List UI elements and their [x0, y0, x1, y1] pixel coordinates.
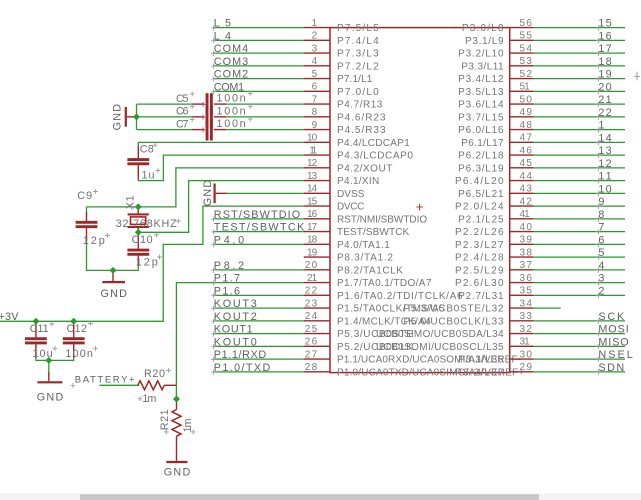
ground GND below R21 — [164, 462, 191, 479]
wire net KOUT1 — [213, 333, 304, 335]
svg-text:12: 12 — [307, 158, 318, 169]
svg-text:41: 41 — [520, 209, 531, 220]
svg-text:18: 18 — [598, 56, 611, 68]
capacitor C8 1u — [127, 143, 160, 182]
pin 17 TEST/SBWTCK — [304, 222, 410, 238]
svg-text:11: 11 — [598, 171, 611, 183]
wire net 11 — [534, 180, 625, 182]
wire net RST/SBWTDIO — [213, 218, 304, 220]
wire net KOUT3 — [213, 307, 304, 309]
pin 26 P5.2/UCB0CLK — [304, 337, 414, 353]
wire net 9 — [534, 205, 625, 207]
wire net 1 — [534, 129, 625, 131]
svg-text:P1.7/TA0.1/TDO/A7: P1.7/TA0.1/TDO/A7 — [337, 278, 432, 289]
svg-text:UCB0SIMO/UCB0SDA/L34: UCB0SIMO/UCB0SDA/L34 — [376, 329, 504, 340]
pin 31 UCB0SOMI/UCB0SCL/L35 — [376, 337, 534, 353]
svg-text:R21: R21 — [159, 409, 171, 430]
wire C10 bottom to GND node — [113, 264, 138, 271]
svg-text:C11: C11 — [30, 323, 49, 335]
svg-text:P3.2/L10: P3.2/L10 — [458, 49, 504, 60]
svg-text:55: 55 — [520, 31, 533, 42]
wire C11 C12 to GND node — [36, 356, 74, 360]
svg-text:25: 25 — [305, 324, 318, 335]
svg-text:P7.2/L2: P7.2/L2 — [337, 61, 379, 72]
capacitor C10 12p — [127, 232, 161, 268]
pin 56 P3.0/L8 — [462, 18, 534, 34]
wire net SCK — [534, 320, 625, 322]
svg-text:15: 15 — [307, 196, 318, 207]
wire pin8 to C6 — [226, 116, 303, 118]
svg-text:P4.6/R23: P4.6/R23 — [337, 112, 386, 123]
wire net 7 — [534, 231, 625, 233]
pin 36 P2.6/L30 — [455, 273, 534, 289]
crystal X1 32.768KHZ — [116, 195, 181, 232]
svg-text:UCB0SOMI/UCB0SCL/L35: UCB0SOMI/UCB0SCL/L35 — [376, 342, 504, 353]
svg-text:19: 19 — [598, 69, 611, 81]
svg-text:P2.7/L31: P2.7/L31 — [458, 291, 504, 302]
svg-text:1u: 1u — [142, 170, 155, 182]
ground GND below C9 C10 — [100, 270, 127, 300]
svg-text:100n: 100n — [217, 93, 246, 105]
svg-text:BATTERY+: BATTERY+ — [75, 375, 135, 386]
svg-text:12p: 12p — [136, 256, 158, 268]
svg-text:P4.5/R33: P4.5/R33 — [337, 125, 386, 136]
wire net 20 — [534, 90, 625, 92]
wire net KOUT2 — [213, 320, 304, 322]
svg-text:7: 7 — [312, 94, 318, 105]
svg-text:DVSS: DVSS — [337, 189, 365, 200]
svg-text:P1.7: P1.7 — [214, 273, 240, 285]
junction — [173, 396, 180, 403]
pin 13 P4.1/XIN — [304, 171, 380, 187]
svg-text:5: 5 — [598, 247, 604, 259]
svg-text:P1.6/TA0.2/TDI/TCLK/A6: P1.6/TA0.2/TDI/TCLK/A6 — [337, 291, 463, 302]
wire +3V to C11 — [35, 321, 37, 326]
wire net 2 — [534, 294, 625, 296]
svg-text:SCK: SCK — [598, 311, 625, 323]
scrollbar thumb — [80, 494, 539, 500]
svg-text:TEST/SBWTCK: TEST/SBWTCK — [214, 222, 305, 234]
svg-text:13: 13 — [307, 171, 318, 182]
svg-text:P7.3/L3: P7.3/L3 — [337, 49, 379, 60]
svg-text:51: 51 — [520, 82, 531, 93]
svg-text:33: 33 — [520, 311, 533, 322]
svg-text:P3.6/L14: P3.6/L14 — [458, 100, 504, 111]
wire +3V to C12 — [73, 321, 75, 326]
wire net COM2 — [213, 78, 304, 80]
svg-text:39: 39 — [520, 235, 533, 246]
svg-text:P3.3/L11: P3.3/L11 — [461, 61, 504, 72]
svg-text:P6.4/L20: P6.4/L20 — [455, 176, 504, 187]
svg-text:49: 49 — [520, 107, 533, 118]
svg-text:14: 14 — [307, 184, 318, 195]
svg-text:37: 37 — [520, 260, 533, 271]
svg-text:47: 47 — [520, 133, 533, 144]
capacitor C6 100n — [176, 104, 253, 128]
pin 16 RST/NMI/SBWTDIO — [304, 209, 428, 225]
svg-text:COM3: COM3 — [214, 56, 248, 68]
wire P1.7 to divider — [176, 283, 303, 399]
svg-text:19: 19 — [307, 247, 318, 258]
capacitor C7 100n — [176, 117, 253, 141]
wire net 14 — [534, 141, 625, 143]
svg-text:13: 13 — [598, 145, 611, 157]
pin 28 P1.0/UCA0TXD/UCA0SIMO/A4/VEREF+ — [304, 362, 525, 378]
svg-text:10: 10 — [307, 133, 318, 144]
svg-text:3: 3 — [312, 43, 318, 54]
svg-text:P3.5/L13: P3.5/L13 — [458, 87, 504, 98]
junction — [70, 318, 77, 325]
ground GND below C11 C12 — [37, 371, 64, 403]
svg-text:C6: C6 — [176, 106, 189, 118]
svg-text:P1.1/RXD: P1.1/RXD — [214, 349, 267, 361]
pin 21 P1.7/TA0.1/TDO/A7 — [304, 273, 432, 289]
svg-text:GND: GND — [112, 104, 124, 131]
svg-text:KOUT1: KOUT1 — [214, 324, 253, 336]
svg-text:43: 43 — [520, 184, 533, 195]
svg-text:C12: C12 — [67, 323, 88, 335]
svg-text:44: 44 — [520, 171, 533, 182]
pin 52 P3.4/L12 — [458, 69, 534, 85]
svg-text:35: 35 — [520, 286, 533, 297]
svg-text:100n: 100n — [65, 348, 93, 360]
wire net 17 — [534, 52, 625, 54]
pin 19 P8.3/TA1.2 — [304, 247, 394, 263]
wire C8 bottom to pin11 — [138, 155, 303, 181]
svg-text:9: 9 — [312, 120, 318, 131]
svg-text:P3.0/L8: P3.0/L8 — [462, 23, 504, 34]
svg-text:C7: C7 — [176, 118, 189, 130]
junction — [45, 357, 52, 364]
svg-text:17: 17 — [598, 43, 611, 55]
svg-text:P5.3/UCB0STE/L32: P5.3/UCB0STE/L32 — [403, 304, 504, 315]
svg-text:28: 28 — [305, 362, 318, 373]
svg-text:RST/SBWTDIO: RST/SBWTDIO — [214, 209, 300, 221]
svg-text:P7.1/L1: P7.1/L1 — [337, 74, 373, 85]
svg-text:P8.2/TA1CLK: P8.2/TA1CLK — [337, 265, 403, 276]
pin 12 P4.2/XOUT — [304, 158, 393, 174]
svg-text:48: 48 — [520, 120, 533, 131]
svg-text:P7.4/L4: P7.4/L4 — [337, 36, 379, 47]
svg-text:4: 4 — [598, 260, 604, 272]
svg-text:22: 22 — [305, 286, 318, 297]
svg-text:14: 14 — [598, 132, 611, 144]
pin 5 P7.1/L1 — [304, 69, 373, 85]
wire net 21 — [534, 103, 625, 105]
svg-text:45: 45 — [520, 158, 533, 169]
svg-text:GND: GND — [100, 288, 127, 300]
svg-text:20: 20 — [598, 81, 611, 93]
capacitor C11 10u — [25, 322, 57, 360]
svg-text:P4.2/XOUT: P4.2/XOUT — [337, 163, 392, 174]
pin 43 P6.5/L21 — [458, 184, 534, 200]
capacitor C12 100n — [63, 321, 98, 360]
svg-text:P4.0: P4.0 — [214, 234, 244, 246]
svg-text:12: 12 — [598, 158, 611, 170]
pin 23 P1.5/TA0CLK/TMS/A5 — [304, 298, 445, 314]
svg-text:MISO: MISO — [598, 336, 628, 348]
svg-text:COM2: COM2 — [214, 69, 248, 81]
pin 15 DVCC — [304, 196, 365, 212]
pin 18 P4.0/TA1.1 — [304, 235, 390, 251]
svg-text:11: 11 — [309, 145, 317, 156]
svg-text:1: 1 — [312, 18, 318, 29]
wire net 10 — [534, 192, 625, 194]
svg-text:34: 34 — [520, 298, 533, 309]
wire net P4.0 — [213, 243, 304, 245]
svg-text:P2.6/L30: P2.6/L30 — [455, 278, 504, 289]
svg-text:15: 15 — [598, 18, 611, 30]
svg-text:3: 3 — [598, 273, 604, 285]
junction — [110, 267, 117, 274]
svg-text:46: 46 — [520, 145, 533, 156]
pin 33 P5.0/UCB0CLK/L33 — [403, 311, 533, 327]
svg-text:10: 10 — [598, 183, 611, 195]
pin 39 P2.3/L27 — [455, 235, 534, 251]
svg-text:P1.0/TXD: P1.0/TXD — [214, 362, 271, 374]
wire net NSEL — [534, 358, 625, 360]
svg-text:1m: 1m — [142, 393, 156, 405]
svg-text:RST/NMI/SBWTDIO: RST/NMI/SBWTDIO — [337, 214, 427, 225]
wire net P1.1/RXD — [213, 358, 304, 360]
wire net 3 — [534, 282, 625, 284]
svg-text:31: 31 — [520, 337, 531, 348]
svg-text:38: 38 — [520, 247, 533, 258]
svg-text:20: 20 — [305, 260, 318, 271]
svg-text:GND: GND — [164, 467, 191, 479]
junction — [135, 229, 142, 236]
svg-text:100n: 100n — [217, 105, 246, 117]
svg-text:P3.7/L15: P3.7/L15 — [458, 112, 504, 123]
resistor R21 1m — [159, 399, 196, 461]
svg-text:26: 26 — [305, 337, 318, 348]
svg-text:P8.2: P8.2 — [214, 260, 244, 272]
pin 20 P8.2/TA1CLK — [304, 260, 404, 276]
wire net 16 — [534, 39, 625, 41]
svg-text:P1.6: P1.6 — [214, 285, 240, 297]
pin 1 P7.5/L5 — [304, 18, 379, 34]
svg-text:16: 16 — [598, 30, 611, 42]
pin 11 P4.3/LCDCAP0 — [304, 145, 414, 161]
svg-text:9: 9 — [598, 196, 604, 208]
wire net 8 — [534, 218, 625, 220]
IC U1 MSP430 — [330, 28, 510, 373]
pin 47 P6.1/L17 — [461, 133, 533, 149]
svg-text:GND: GND — [202, 180, 214, 207]
svg-text:17: 17 — [307, 222, 318, 233]
wire net MOSI — [534, 333, 625, 335]
svg-text:18: 18 — [307, 235, 318, 246]
svg-text:30: 30 — [520, 349, 533, 360]
wire net MISO — [534, 345, 625, 347]
wire net L5 — [213, 27, 304, 29]
wire net P1.0/TXD — [213, 371, 304, 373]
wire pin9 to C7 — [226, 129, 303, 131]
svg-text:6: 6 — [598, 234, 604, 246]
pin 10 P4.4/LCDCAP1 — [304, 133, 410, 149]
wire net 22 — [534, 116, 625, 118]
svg-text:8: 8 — [312, 107, 318, 118]
svg-text:12p: 12p — [83, 235, 105, 247]
origin cross U1 — [416, 204, 422, 210]
edge mark right — [634, 72, 640, 80]
svg-text:1: 1 — [598, 120, 604, 132]
svg-text:P7.5/L5: P7.5/L5 — [337, 23, 379, 34]
junction — [32, 318, 39, 325]
pin 7 P4.7/R13 — [304, 94, 383, 110]
svg-text:32.768KHZ: 32.768KHZ — [116, 218, 177, 230]
svg-text:SDN: SDN — [598, 362, 624, 374]
svg-text:P2.2/L26: P2.2/L26 — [455, 227, 504, 238]
svg-text:P5.0/UCB0CLK/L33: P5.0/UCB0CLK/L33 — [403, 316, 504, 327]
svg-text:32: 32 — [520, 324, 533, 335]
svg-text:22: 22 — [598, 107, 611, 119]
svg-text:P7.0/L0: P7.0/L0 — [337, 87, 379, 98]
pin 42 P2.0/L24 — [455, 196, 534, 212]
pin 51 P3.5/L13 — [458, 82, 534, 98]
svg-text:P3.1/L36: P3.1/L36 — [458, 355, 504, 366]
wire net 12 — [534, 167, 625, 169]
pin 54 P3.2/L10 — [458, 43, 534, 59]
svg-text:P4.4/LCDCAP1: P4.4/LCDCAP1 — [337, 138, 410, 149]
wire net 6 — [534, 243, 625, 245]
svg-text:C5: C5 — [176, 93, 189, 105]
pin 49 P3.7/L15 — [458, 107, 534, 123]
svg-text:MOSI: MOSI — [598, 324, 628, 336]
pin 37 P2.5/L29 — [455, 260, 534, 276]
pin 55 P3.1/L9 — [465, 31, 534, 47]
svg-text:P6.0/L16: P6.0/L16 — [458, 125, 504, 136]
svg-text:42: 42 — [520, 196, 533, 207]
pin 50 P3.6/L14 — [458, 94, 534, 110]
svg-text:GND: GND — [37, 392, 64, 404]
svg-text:54: 54 — [520, 43, 533, 54]
svg-text:+3V: +3V — [0, 311, 19, 323]
svg-text:P3.1/L9: P3.1/L9 — [465, 36, 504, 47]
svg-text:C9: C9 — [77, 190, 92, 202]
scrollbar track — [0, 494, 641, 500]
pin 3 P7.3/L3 — [304, 43, 379, 59]
wire DVSS to GND — [227, 192, 304, 194]
pin 46 P6.2/L18 — [458, 145, 534, 161]
svg-text:8: 8 — [598, 209, 604, 221]
svg-text:P6.2/L18: P6.2/L18 — [458, 151, 504, 162]
svg-text:KOUT3: KOUT3 — [214, 298, 257, 310]
svg-text:C10: C10 — [132, 234, 153, 246]
svg-text:21: 21 — [307, 273, 318, 284]
pin 44 P6.4/L20 — [455, 171, 534, 187]
svg-text:4: 4 — [312, 56, 318, 67]
resistor R20 1m — [138, 368, 177, 405]
pin 34 P5.3/UCB0STE/L32 — [403, 298, 533, 314]
pin 29 P3.2/L37 — [455, 362, 534, 378]
svg-text:P3.4/L12: P3.4/L12 — [458, 74, 504, 85]
svg-text:P2.5/L29: P2.5/L29 — [455, 265, 504, 276]
svg-text:21: 21 — [598, 94, 611, 106]
svg-text:5: 5 — [312, 69, 318, 80]
pin 4 P7.2/L2 — [304, 56, 379, 72]
wire GND bus to C5 C6 C7 — [137, 104, 193, 130]
svg-text:27: 27 — [305, 349, 318, 360]
svg-text:40: 40 — [520, 222, 533, 233]
pin 27 P1.1/UCA0RXD/UCA0SOMI/A3/VEREF- — [304, 349, 521, 365]
pin 35 P2.7/L31 — [458, 286, 534, 302]
pin 30 P3.1/L36 — [458, 349, 534, 365]
wire +3V rail to DVCC — [0, 206, 304, 321]
svg-text:KOUT0: KOUT0 — [214, 336, 257, 348]
svg-text:53: 53 — [520, 56, 533, 67]
svg-text:24: 24 — [305, 311, 318, 322]
wire net TEST/SBWTCK — [213, 231, 304, 233]
wire net COM1 — [213, 90, 304, 92]
wire net 18 — [534, 65, 625, 67]
wire XOUT to crystal top — [138, 168, 304, 207]
wire C9 bottom to GND node — [87, 237, 114, 271]
wire C8 top to pin10 — [138, 142, 303, 146]
wire down to C9 top — [86, 207, 88, 214]
wire GND stub — [48, 360, 50, 371]
pin 32 UCB0SIMO/UCB0SDA/L34 — [376, 324, 534, 340]
wire net 5 — [534, 256, 625, 258]
svg-text:COM4: COM4 — [214, 43, 248, 55]
pin 53 P3.3/L11 — [461, 56, 533, 72]
pin 24 P1.4/MCLK/TCK/A4 — [304, 311, 432, 327]
wire net P1.6 — [213, 294, 304, 296]
pin 22 P1.6/TA0.2/TDI/TCLK/A6 — [304, 286, 463, 302]
wire net COM4 — [213, 52, 304, 54]
svg-text:2: 2 — [312, 31, 318, 42]
svg-text:KOUT2: KOUT2 — [214, 311, 257, 323]
svg-text:23: 23 — [305, 298, 318, 309]
junction — [133, 113, 140, 120]
pin 38 P2.4/L28 — [455, 247, 534, 263]
svg-text:P2.0/L24: P2.0/L24 — [455, 202, 504, 213]
pin 45 P6.3/L19 — [458, 158, 534, 174]
svg-text:P2.1/L25: P2.1/L25 — [458, 214, 504, 225]
svg-text:P4.7/R13: P4.7/R13 — [337, 100, 383, 111]
svg-text:P4.1/XIN: P4.1/XIN — [337, 176, 379, 187]
pin 48 P6.0/L16 — [458, 120, 534, 136]
capacitor C9 12p — [76, 189, 110, 247]
svg-text:36: 36 — [520, 273, 533, 284]
wire net 15 — [534, 27, 625, 29]
svg-text:P6.1/L17: P6.1/L17 — [461, 138, 504, 149]
wire net P8.2 — [213, 269, 304, 271]
wire net COM3 — [213, 65, 304, 67]
svg-text:R20: R20 — [144, 368, 165, 380]
pin 2 P7.4/L4 — [304, 31, 379, 47]
svg-text:2: 2 — [598, 285, 604, 297]
wire stub pin34 — [534, 307, 561, 309]
ground GND at DVSS (rotated) — [202, 180, 227, 207]
svg-text:TEST/SBWTCK: TEST/SBWTCK — [337, 227, 410, 238]
pin 9 P4.5/R33 — [304, 120, 386, 136]
pin 40 P2.2/L26 — [455, 222, 534, 238]
wire XIN to crystal bottom — [138, 181, 303, 233]
wire net 13 — [534, 154, 625, 156]
wire net SDN — [534, 371, 625, 373]
wire crystal top to C9 — [87, 206, 139, 208]
pin 25 P5.3/UCB0STE — [304, 324, 414, 340]
junction — [135, 203, 142, 210]
svg-text:P4.3/LCDCAP0: P4.3/LCDCAP0 — [337, 151, 413, 162]
pin 41 P2.1/L25 — [458, 209, 534, 225]
svg-text:P6.3/L19: P6.3/L19 — [458, 163, 504, 174]
label origin marks — [70, 25, 601, 388]
wire net KOUT0 — [213, 345, 304, 347]
svg-text:DVCC: DVCC — [337, 202, 364, 213]
wire pin7 to C5 — [226, 103, 303, 105]
